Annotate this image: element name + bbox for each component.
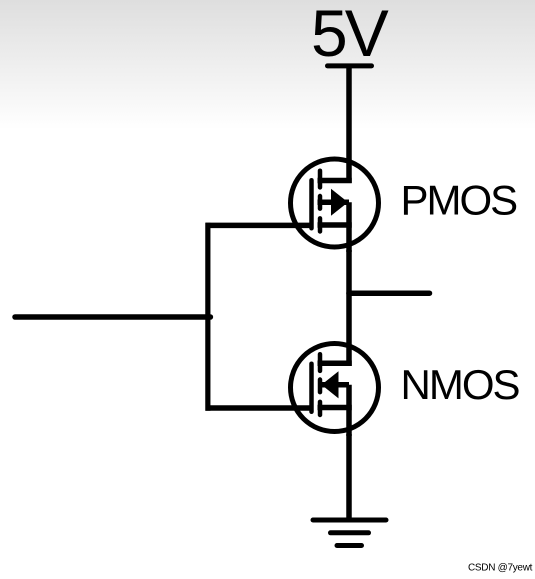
NMOS body arrow pointing left: [322, 371, 339, 398]
NMOS gate bar: [309, 364, 314, 412]
svg-text:PMOS: PMOS: [401, 176, 518, 223]
PMOS drain bar (right vertical): [346, 202, 352, 252]
PMOS gate bar: [309, 180, 314, 228]
ground bar 1 (top, widest): [313, 518, 386, 523]
NMOS body circle: [291, 344, 379, 432]
svg-text:5V: 5V: [311, 0, 389, 70]
PMOS channel dash 3 (drain): [318, 218, 323, 231]
PMOS body line (middle horizontal): [318, 199, 350, 205]
wire: 5V rail to PMOS source: [346, 65, 352, 183]
PMOS source connection (top horizontal): [318, 178, 352, 184]
ground bar 2 (middle): [331, 530, 369, 535]
PMOS drain connection (bottom horizontal): [318, 222, 352, 228]
power rail bar (5V supply): [328, 63, 372, 68]
transistor Q1 PMOS: [206, 159, 379, 252]
PMOS channel dash 2 (body): [318, 196, 323, 209]
ground symbol: [313, 520, 386, 546]
ground bar 3 (bottom, narrowest): [337, 543, 362, 548]
NMOS channel dash 1 (drain): [318, 354, 323, 371]
PMOS body arrow pointing right: [331, 189, 348, 216]
svg-text:CSDN @7yewt: CSDN @7yewt: [468, 563, 533, 574]
NMOS body line (middle horizontal): [322, 382, 350, 388]
wire: PMOS drain to NMOS drain: [346, 250, 352, 366]
NMOS source bar (right vertical): [346, 385, 352, 436]
wire: NMOS source to ground: [346, 434, 352, 520]
transistor Q2 NMOS: [206, 344, 379, 437]
PMOS gate lead: [206, 223, 314, 229]
NMOS drain connection (top horizontal): [318, 360, 352, 366]
PMOS body circle: [291, 159, 379, 247]
NMOS gate lead: [206, 405, 314, 411]
NMOS channel dash 2 (body): [318, 380, 323, 393]
PMOS channel dash 1 (source): [318, 171, 323, 188]
wire: gate bus vertical: [205, 223, 210, 411]
wire: output tap: [349, 290, 430, 296]
NMOS source connection (bottom horizontal): [318, 405, 352, 411]
svg-text:NMOS: NMOS: [401, 361, 520, 408]
NMOS channel dash 3 (source): [318, 402, 323, 415]
wire: input line (left): [15, 314, 210, 320]
